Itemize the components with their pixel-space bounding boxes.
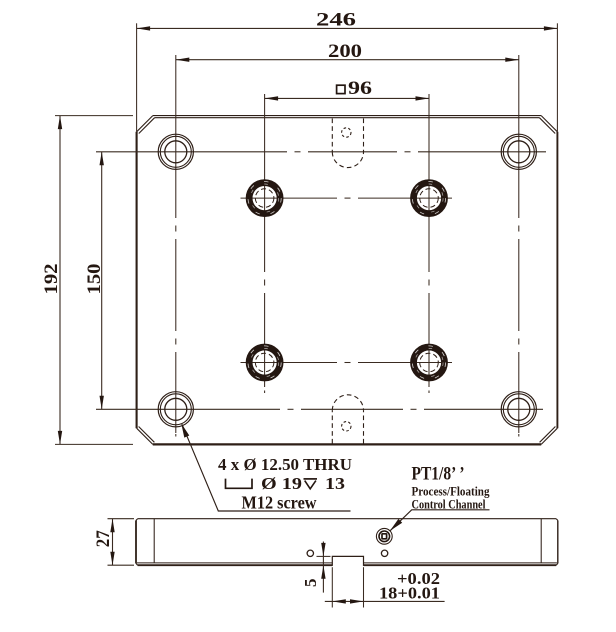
svg-text:Ø 19: Ø 19 [261, 474, 302, 493]
svg-text:M12 screw: M12 screw [242, 493, 317, 513]
svg-text:200: 200 [328, 41, 362, 62]
corner chamfer bottom-right [540, 427, 558, 445]
plate outline (top view) [137, 116, 558, 445]
corner chamfer top-right [539, 116, 557, 134]
side view body [136, 519, 558, 566]
centerline vertical right corner holes / 200 extension right [517, 55, 522, 437]
dimension 27 [93, 519, 134, 566]
dimension 5 [301, 542, 331, 593]
svg-text:96: 96 [348, 78, 372, 99]
corner chamfer bottom-left [137, 427, 155, 445]
centerline vertical left corner holes / 200 extension left [174, 55, 179, 437]
bolt hole bottom-right [410, 344, 448, 382]
leader PT port [388, 510, 489, 533]
corner chamfer top-left [137, 116, 155, 134]
corner hole bottom-left (counterbore) [158, 392, 193, 427]
svg-text:18+0.01: 18+0.01 [379, 584, 440, 603]
centerline vertical left bolt holes / 96 extension left [262, 94, 267, 393]
svg-text:Control Channel: Control Channel [412, 496, 486, 511]
leader M12 screw [179, 422, 351, 511]
svg-text:246: 246 [316, 10, 356, 31]
dimension 200 [176, 41, 519, 62]
centerline horizontal through top corner holes [96, 150, 546, 155]
slot bottom (hidden U-cutout) [332, 395, 363, 444]
svg-text:13: 13 [325, 474, 345, 493]
dimension 18 +0.02/+0.01 [325, 567, 445, 607]
bolt hole top-left [246, 179, 284, 217]
centerline horizontal bottom bolt holes [241, 360, 453, 365]
corner hole top-left (counterbore) [158, 134, 193, 169]
slot top (hidden U-cutout) [332, 119, 363, 168]
svg-text:150: 150 [84, 264, 105, 295]
small hole right on side view [381, 550, 387, 556]
svg-text:5: 5 [301, 579, 320, 588]
centerline horizontal through bottom corner holes [96, 407, 543, 412]
svg-text:4 x Ø 12.50 THRU: 4 x Ø 12.50 THRU [218, 455, 352, 474]
bolt hole bottom-left [246, 344, 284, 382]
small hole left on side view [307, 550, 313, 556]
svg-text:192: 192 [41, 264, 62, 295]
slot bottom pilot circle [342, 422, 351, 431]
note counterbore 19 depth 13 [226, 474, 346, 493]
corner hole bottom-right (counterbore) [501, 392, 536, 427]
notch in side view bottom [332, 556, 363, 566]
svg-text:27: 27 [93, 530, 114, 547]
corner hole top-right (counterbore) [501, 134, 536, 169]
centerline vertical right bolt holes / 96 extension right [427, 94, 432, 393]
centerline horizontal top bolt holes [241, 196, 453, 201]
dimension 246 [137, 10, 558, 132]
svg-text:PT1/8’ ’: PT1/8’ ’ [412, 464, 465, 485]
dimension 192 [41, 116, 133, 445]
slot top pilot circle [342, 128, 351, 137]
PT1/8 port on side view [376, 528, 392, 544]
dimension 150 [84, 152, 105, 410]
bolt hole top-right [410, 179, 448, 217]
dimension square 96 [265, 78, 429, 101]
